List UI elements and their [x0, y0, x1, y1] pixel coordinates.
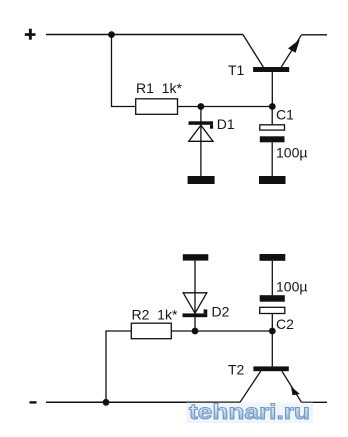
node: D1 tap on base wire — [198, 103, 205, 110]
capacitor C1 — [260, 107, 285, 177]
wire: positive rail right segment — [302, 34, 328, 36]
node: junction on negative rail — [103, 399, 110, 406]
svg-text:R1 1k*: R1 1k* — [136, 80, 182, 96]
supply bar above D2 — [183, 254, 209, 260]
svg-text:tehnari.ru: tehnari.ru — [189, 401, 310, 424]
resistor R1 — [136, 99, 178, 115]
node: D2 tap on base wire — [192, 328, 199, 335]
zener diode D1 — [189, 107, 214, 177]
wire: negative rail left segment — [46, 401, 240, 403]
plus terminal (+) — [25, 29, 36, 40]
watermark tehnari.ru — [186, 401, 313, 424]
node: base of T2 / bottom of C2 — [269, 328, 276, 335]
wire: negative rail right segment — [302, 401, 328, 403]
capacitor C2 — [260, 261, 285, 331]
ground bar under C1 — [259, 176, 286, 184]
svg-text:100µ: 100µ — [276, 145, 307, 161]
svg-text:D2: D2 — [212, 303, 230, 319]
transistor T1 — [243, 35, 302, 107]
wire: to R1 left terminal — [111, 106, 136, 108]
svg-text:R2 1k*: R2 1k* — [132, 306, 178, 322]
svg-text:C2: C2 — [276, 316, 294, 332]
svg-text:100µ: 100µ — [276, 279, 307, 295]
node: junction on positive rail — [108, 31, 115, 38]
svg-text:T2: T2 — [228, 361, 245, 377]
svg-text:D1: D1 — [217, 116, 235, 132]
transistor T2 — [240, 331, 302, 402]
node: base of T1 / top of C1 — [269, 103, 276, 110]
wire: R1 right terminal to node of C1 — [178, 106, 273, 108]
wire: to R2 left terminal — [105, 330, 131, 332]
resistor R2 — [131, 323, 171, 339]
svg-text:T1: T1 — [228, 62, 245, 78]
wire: junction up to R2 row — [105, 331, 107, 402]
wire: positive rail left segment — [46, 34, 243, 36]
wire: R2 right terminal to node of C2 — [171, 330, 272, 332]
ground bar under D1 — [188, 176, 215, 184]
zener diode D2 — [183, 261, 208, 331]
wire: junction down to R1 row — [111, 35, 113, 107]
supply bar above C2 — [260, 254, 286, 261]
svg-text:C1: C1 — [276, 107, 294, 123]
minus terminal (-) — [30, 401, 37, 403]
